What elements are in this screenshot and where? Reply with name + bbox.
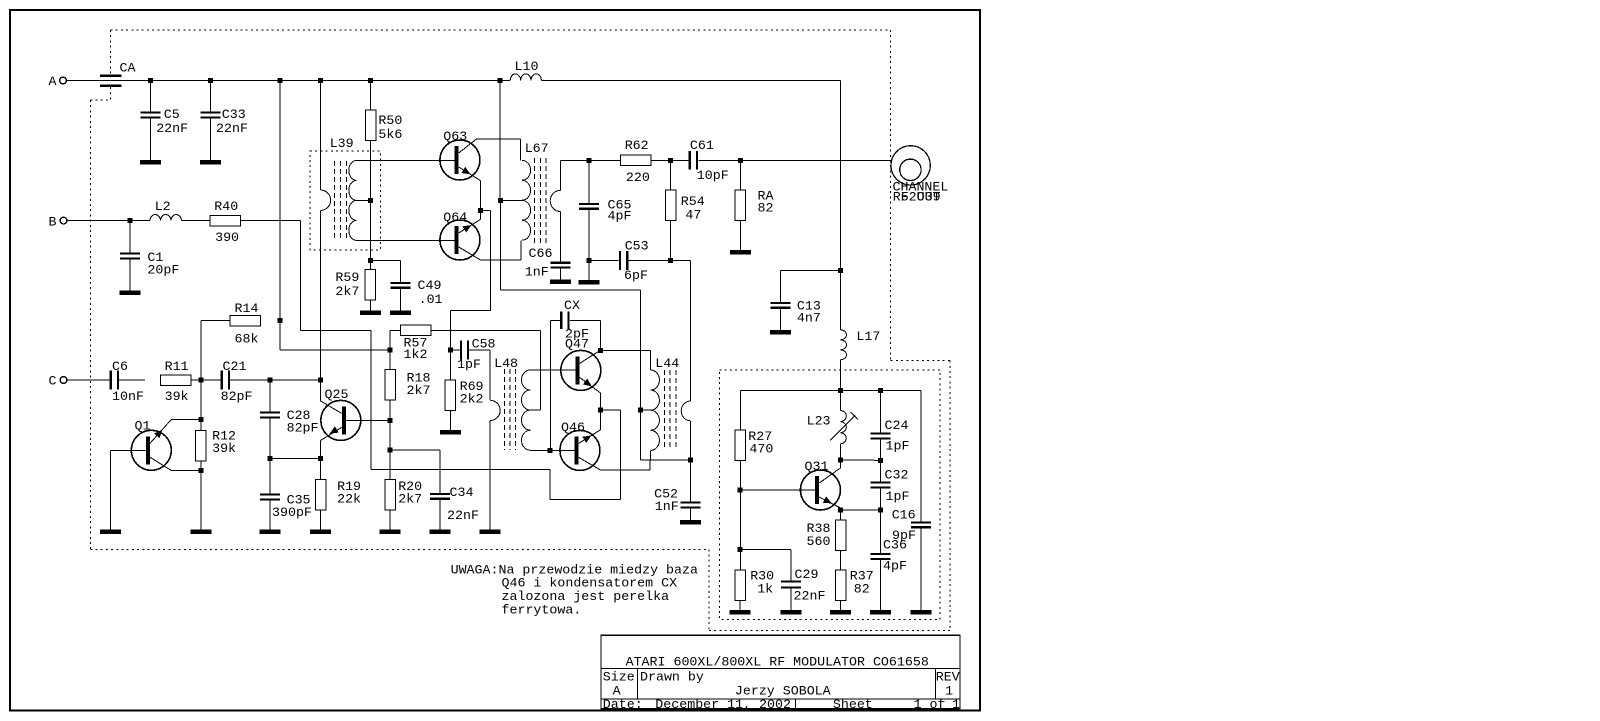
svg-text:L48: L48 bbox=[494, 356, 518, 371]
node R14 right bbox=[278, 318, 283, 323]
node osc rail L23 bbox=[838, 388, 843, 393]
wire B to C1 node bbox=[67, 220, 150, 222]
capacitor C58 bbox=[457, 337, 496, 373]
ground R12 bbox=[190, 529, 211, 534]
svg-text:20pF: 20pF bbox=[147, 263, 179, 278]
transformer L44 core bbox=[655, 356, 679, 450]
svg-text:REV: REV bbox=[936, 670, 960, 685]
capacitor C36 bbox=[871, 510, 907, 610]
svg-text:L39: L39 bbox=[330, 136, 354, 151]
node L39 tap bbox=[368, 198, 373, 203]
capacitor C34 bbox=[430, 485, 479, 534]
svg-text:10nF: 10nF bbox=[112, 389, 144, 404]
capacitor C6 bbox=[110, 359, 144, 404]
wire Q31 collector to L23 node bbox=[819, 460, 840, 483]
svg-text:4n7: 4n7 bbox=[797, 311, 821, 326]
resistor R30 bbox=[735, 569, 774, 610]
wire L67 tap down to L44 feed bbox=[501, 200, 641, 460]
label CHANNEL / RF OUT overlap bbox=[893, 180, 949, 205]
resistor R27 bbox=[735, 429, 773, 570]
wire Q63 collector to L67 top bbox=[459, 139, 521, 160]
wire R18 to Q25 base node to R20 bbox=[389, 400, 391, 480]
wire L2 to R40 bbox=[182, 220, 211, 222]
L39 core bbox=[335, 161, 347, 241]
wire C58 left lead bbox=[450, 349, 461, 351]
svg-text:Q25: Q25 bbox=[325, 387, 349, 402]
capacitor C28 bbox=[260, 380, 319, 459]
svg-text:R59: R59 bbox=[335, 270, 359, 285]
svg-text:22nF: 22nF bbox=[156, 121, 188, 136]
svg-text:Q63: Q63 bbox=[443, 129, 467, 144]
transistor Q64 bbox=[440, 210, 480, 260]
wire Q31 base bbox=[740, 489, 815, 491]
wire C6 to R11 bbox=[119, 379, 145, 381]
transformer L39 dotted box bbox=[310, 136, 380, 250]
svg-text:R50: R50 bbox=[378, 113, 402, 128]
node R20 top bbox=[388, 448, 393, 453]
wire L67 secondary top to R62 node bbox=[561, 159, 590, 161]
L44 primary winding (left) bbox=[651, 370, 660, 450]
transistor Q31 bbox=[800, 459, 840, 510]
ground L48 primary bbox=[479, 529, 500, 534]
svg-text:1 of: 1 of bbox=[914, 697, 946, 712]
wire Q25 collector to C-wire bbox=[320, 380, 341, 413]
resistor R12 bbox=[196, 429, 237, 462]
node L23 bottom bbox=[838, 458, 843, 463]
svg-text:R11: R11 bbox=[165, 359, 189, 374]
node R12 top bbox=[198, 417, 203, 422]
svg-text:1pF: 1pF bbox=[457, 357, 481, 372]
node C-R11 bbox=[198, 378, 203, 383]
capacitor C1 bbox=[120, 221, 180, 295]
oscillator top rail bbox=[740, 391, 921, 431]
resistor R18 bbox=[385, 350, 431, 400]
L48 primary winding (left) bbox=[490, 400, 500, 529]
wire R57 left lead bbox=[390, 330, 400, 350]
transistor Q1 bbox=[131, 419, 171, 471]
node A4 bbox=[318, 78, 323, 83]
capacitor C65 bbox=[579, 160, 631, 260]
node C21-C28 bbox=[267, 378, 272, 383]
svg-text:C49: C49 bbox=[418, 278, 442, 293]
wire R30 node to C29 bbox=[740, 549, 791, 580]
wire Q46 emitter up to node bbox=[579, 410, 601, 443]
resistor R40 bbox=[210, 199, 241, 245]
resistor R11 bbox=[160, 359, 191, 404]
svg-text:390pF: 390pF bbox=[272, 505, 312, 520]
svg-text:L44: L44 bbox=[655, 356, 679, 371]
resistor RA bbox=[735, 160, 773, 250]
svg-text:560: 560 bbox=[807, 534, 831, 549]
resistor R20 bbox=[385, 479, 422, 510]
node Q25 emitter bbox=[318, 456, 323, 461]
wire A-line bbox=[67, 80, 511, 82]
wire Q47 collector node to L44 primary bbox=[600, 350, 650, 370]
svg-text:22k: 22k bbox=[337, 492, 361, 507]
node C24-C32 bbox=[878, 458, 883, 463]
wire Q1 base to ground bbox=[110, 450, 146, 529]
node C28-C35 bbox=[267, 456, 272, 461]
node A3 bbox=[278, 78, 283, 83]
svg-text:L10: L10 bbox=[515, 59, 539, 74]
wire C53 leads bbox=[589, 260, 690, 262]
svg-text:L17: L17 bbox=[856, 329, 880, 344]
node A1 bbox=[148, 78, 153, 83]
wire L23 bottom to C24 node bbox=[840, 459, 880, 461]
capacitor CX bbox=[550, 298, 589, 342]
wire C53 node down to L44 secondary bbox=[690, 261, 692, 402]
svg-text:1pF: 1pF bbox=[886, 439, 910, 454]
wire C61 to RF out bbox=[698, 159, 890, 161]
ground C16 bbox=[910, 610, 931, 615]
wire L44 bottom rail bbox=[640, 450, 690, 460]
resistor R62 bbox=[621, 138, 652, 185]
node R62 right bbox=[668, 158, 673, 163]
capacitor C49 bbox=[390, 278, 443, 315]
svg-text:1k2: 1k2 bbox=[404, 347, 428, 362]
svg-text:C53: C53 bbox=[625, 239, 649, 254]
ground R37 bbox=[830, 610, 851, 615]
svg-text:39k: 39k bbox=[165, 389, 189, 404]
node R62 left bbox=[587, 158, 592, 163]
svg-text:C66: C66 bbox=[529, 246, 553, 261]
wire Q25 base to R18 node bbox=[344, 419, 390, 421]
svg-text:Date:: Date: bbox=[603, 697, 643, 712]
svg-text:B: B bbox=[49, 215, 57, 230]
svg-text:1k: 1k bbox=[757, 582, 773, 597]
transistor Q47 bbox=[561, 337, 601, 391]
node C13 bbox=[838, 268, 843, 273]
wire Q64 collector to L67 bottom bbox=[459, 240, 521, 260]
wire R62 leads bbox=[589, 159, 691, 161]
wire R59 node to C49 bbox=[370, 261, 400, 282]
capacitor C61 bbox=[689, 138, 729, 183]
wire L39 bottom to Q64 base bbox=[357, 239, 455, 241]
wire L39 top to Q63 base bbox=[357, 159, 455, 161]
svg-text:CX: CX bbox=[564, 298, 580, 313]
svg-text:22nF: 22nF bbox=[216, 121, 248, 136]
svg-text:1: 1 bbox=[952, 697, 960, 712]
wire R11 to C21 bbox=[191, 379, 221, 381]
node C32 bottom bbox=[878, 508, 883, 513]
L39 secondary winding (right) bbox=[349, 160, 357, 240]
node Q25 base bbox=[388, 418, 393, 423]
svg-text:39k: 39k bbox=[212, 441, 236, 456]
title block frame bbox=[601, 635, 960, 709]
svg-text:Q31: Q31 bbox=[805, 459, 829, 474]
oscillator dotted box bbox=[720, 370, 941, 620]
wire CX right lead to Q47 collector node bbox=[570, 320, 601, 350]
capacitor C29 bbox=[781, 567, 826, 614]
node Q47-Q46 bbox=[598, 408, 603, 413]
wire R38 to R37 bbox=[840, 551, 842, 571]
svg-text:C21: C21 bbox=[223, 359, 247, 374]
terminal B bbox=[49, 215, 67, 230]
svg-text:C: C bbox=[49, 374, 57, 389]
node R12 bottom bbox=[198, 468, 203, 473]
wire R14 left lead down to C-wire node bbox=[201, 321, 230, 380]
capacitor C13 bbox=[770, 270, 840, 334]
svg-text:Drawn by: Drawn by bbox=[640, 670, 704, 685]
svg-text:2k7: 2k7 bbox=[398, 492, 422, 507]
svg-text:C29: C29 bbox=[795, 567, 819, 582]
svg-text:68k: 68k bbox=[235, 332, 259, 347]
svg-text:C58: C58 bbox=[472, 337, 496, 352]
wire R40 to corner, down to mixer emitter rail bbox=[241, 221, 551, 470]
wire CX feed down to Q46 base node bbox=[549, 320, 551, 450]
wire R20 node to C34 bbox=[390, 450, 440, 493]
svg-text:Q1: Q1 bbox=[135, 419, 151, 434]
wire common emitters to C58 node bbox=[450, 211, 490, 351]
shield dashed box (RF cage outline) bbox=[90, 30, 950, 631]
svg-text:C32: C32 bbox=[885, 468, 909, 483]
svg-text:ATARI 600XL/800XL RF MODULATOR: ATARI 600XL/800XL RF MODULATOR CO61658 bbox=[626, 654, 929, 669]
capacitor C35 bbox=[259, 459, 312, 534]
svg-text:82pF: 82pF bbox=[287, 421, 319, 436]
wire Q46 collector to L44 bottom bbox=[579, 457, 650, 470]
wire R57 right lead to L48 tap bbox=[431, 330, 541, 410]
svg-text:52U39: 52U39 bbox=[901, 190, 941, 205]
svg-text:CA: CA bbox=[120, 61, 136, 76]
wire C to C6 bbox=[67, 379, 110, 381]
ground R30 bbox=[730, 610, 751, 615]
svg-text:6pF: 6pF bbox=[624, 268, 648, 283]
wire Q31 emitter to R38 node bbox=[819, 496, 840, 520]
node C53-R54 bbox=[668, 258, 673, 263]
node R59 top bbox=[368, 258, 373, 263]
transistor Q25 bbox=[321, 387, 361, 440]
L39 primary winding (left) bbox=[320, 81, 330, 381]
wire L39 centre tap bbox=[357, 199, 371, 201]
node B1 bbox=[128, 218, 133, 223]
wire C28 node to Q25 emitter node bbox=[270, 458, 321, 460]
node A2 bbox=[208, 78, 213, 83]
ground C36 bbox=[870, 610, 891, 615]
capacitor C53 bbox=[619, 239, 649, 284]
svg-text:9pF: 9pF bbox=[892, 528, 916, 543]
svg-text:L23: L23 bbox=[807, 414, 831, 429]
L67 secondary winding (right) bbox=[550, 160, 560, 261]
page border bbox=[10, 10, 980, 711]
L44 secondary winding (right) bbox=[681, 401, 690, 460]
svg-text:C16: C16 bbox=[892, 508, 916, 523]
wire R20 to ground bbox=[380, 510, 401, 534]
wire Q1 emitter to R12 top node bbox=[150, 420, 201, 444]
capacitor C66 bbox=[525, 246, 571, 284]
node osc rail C24 bbox=[878, 388, 883, 393]
capacitor C5 bbox=[140, 81, 188, 165]
L48 secondary winding (right) bbox=[522, 370, 531, 450]
svg-text:1pF: 1pF bbox=[886, 489, 910, 504]
ground Q1 base bbox=[100, 529, 121, 534]
title text bbox=[626, 654, 929, 669]
svg-text:L67: L67 bbox=[525, 141, 549, 156]
terminal C bbox=[49, 374, 67, 389]
svg-text:470: 470 bbox=[749, 442, 773, 457]
svg-text:C6: C6 bbox=[112, 359, 128, 374]
ground RA bbox=[730, 250, 751, 255]
svg-text:ferrytowa.: ferrytowa. bbox=[502, 602, 582, 617]
node C-wire L39 bbox=[318, 378, 323, 383]
wire Q25 emitter down to R19 node bbox=[321, 426, 342, 479]
svg-text:C5: C5 bbox=[164, 107, 180, 122]
inductor L10 bbox=[510, 59, 541, 81]
wire A-line corner down to oscillator bbox=[839, 81, 841, 271]
svg-text:2k7: 2k7 bbox=[335, 284, 359, 299]
svg-text:10pF: 10pF bbox=[697, 168, 729, 183]
svg-text:L2: L2 bbox=[155, 199, 171, 214]
svg-text:C61: C61 bbox=[690, 138, 714, 153]
wire C21 to C28 node to Q25 collector drop bbox=[230, 379, 321, 381]
svg-text:82: 82 bbox=[854, 582, 870, 597]
svg-text:4pF: 4pF bbox=[608, 209, 632, 224]
node L44 tap bbox=[638, 408, 643, 413]
resistor R57 bbox=[400, 325, 431, 362]
resistor R37 bbox=[835, 569, 873, 610]
wire R11 node down through R12 to ground bbox=[200, 380, 202, 529]
capacitor CA bbox=[100, 61, 135, 87]
svg-text:22nF: 22nF bbox=[794, 589, 826, 604]
node R18 top bbox=[388, 348, 393, 353]
svg-text:220: 220 bbox=[626, 170, 650, 185]
resistor R38 bbox=[807, 520, 846, 551]
resistor R50 bbox=[365, 81, 402, 261]
resistor R54 bbox=[665, 160, 705, 260]
node C58-R69 bbox=[448, 348, 453, 353]
svg-text:December 11, 2002: December 11, 2002 bbox=[655, 697, 791, 712]
wire Q1 collector to R12 bottom node bbox=[150, 457, 201, 470]
wire L48 top to Q47 base bbox=[530, 369, 575, 371]
node C52 top bbox=[688, 458, 693, 463]
node Q63-Q64 emitters bbox=[478, 208, 483, 213]
svg-text:47: 47 bbox=[685, 208, 701, 223]
svg-text:R62: R62 bbox=[625, 138, 649, 153]
svg-text:C24: C24 bbox=[885, 418, 909, 433]
wire Q47 emitter down to node bbox=[580, 377, 601, 410]
wire Q63 emitter to common emitter node bbox=[459, 167, 481, 211]
svg-text:R40: R40 bbox=[214, 199, 238, 214]
resistor R14 bbox=[230, 301, 261, 347]
terminal A bbox=[49, 74, 67, 89]
svg-text:82pF: 82pF bbox=[221, 389, 253, 404]
node A6 bbox=[498, 78, 503, 83]
title row size/drawn/rev bbox=[603, 670, 960, 699]
node Q47 collector bbox=[598, 348, 603, 353]
svg-text:390: 390 bbox=[215, 230, 239, 245]
svg-text:A: A bbox=[49, 74, 57, 89]
svg-text:22nF: 22nF bbox=[447, 508, 479, 523]
capacitor C32 bbox=[871, 460, 910, 510]
wire A-line after L10 bbox=[541, 80, 840, 82]
svg-text:1nF: 1nF bbox=[525, 265, 549, 280]
svg-text:2k2: 2k2 bbox=[460, 392, 484, 407]
capacitor C21 bbox=[221, 359, 253, 404]
svg-text:.01: .01 bbox=[419, 292, 443, 307]
wire R14 node to R18 top node bbox=[280, 349, 390, 351]
wire C65 node to ground bbox=[579, 261, 600, 285]
svg-text:Q46: Q46 bbox=[561, 420, 585, 435]
node C65 bottom bbox=[587, 258, 592, 263]
node A5 bbox=[368, 78, 373, 83]
svg-text:2k7: 2k7 bbox=[407, 383, 431, 398]
L67 primary winding (left) bbox=[522, 160, 531, 240]
wire L48 bottom to Q46 base bbox=[530, 449, 574, 451]
transistor Q63 bbox=[440, 129, 480, 180]
wire Q47 collector diag bbox=[580, 350, 601, 363]
wire A-node down to L67 tap node bbox=[499, 81, 501, 201]
svg-text:R14: R14 bbox=[235, 301, 259, 316]
wire L67 tap to drive node bbox=[501, 199, 522, 201]
capacitor C16 bbox=[892, 391, 931, 610]
svg-text:1nF: 1nF bbox=[655, 499, 679, 514]
transformer L48 core bbox=[494, 356, 518, 450]
svg-text:Q47: Q47 bbox=[565, 337, 589, 352]
wire A down to R14 node bbox=[279, 81, 281, 351]
capacitor C33 bbox=[200, 81, 248, 165]
inductor L23 (variable) bbox=[807, 391, 858, 461]
resistor R69 bbox=[440, 350, 484, 434]
inductor L2 bbox=[150, 199, 182, 221]
wire R19 to ground bbox=[310, 510, 331, 534]
svg-text:C34: C34 bbox=[450, 485, 474, 500]
RF output connector bbox=[891, 146, 930, 185]
transistor Q46 bbox=[560, 420, 600, 470]
wire Q47/Q46 node loop to B rail bbox=[550, 410, 621, 500]
node C61-RA bbox=[738, 158, 743, 163]
resistor R59 bbox=[335, 261, 375, 311]
node R30 top bbox=[738, 547, 743, 552]
svg-text:82: 82 bbox=[758, 201, 774, 216]
title row date/sheet bbox=[603, 697, 960, 712]
note UWAGA bbox=[451, 562, 698, 617]
svg-text:C33: C33 bbox=[222, 107, 246, 122]
svg-text:4pF: 4pF bbox=[883, 559, 907, 574]
svg-text:Sheet: Sheet bbox=[833, 697, 873, 712]
wire emitter node to C32 node bbox=[841, 509, 880, 511]
inductor L17 bbox=[840, 270, 880, 390]
svg-text:5k6: 5k6 bbox=[378, 127, 402, 142]
wire C58 right lead to L48 primary bbox=[468, 350, 490, 400]
node Q31 base bbox=[737, 488, 742, 493]
capacitor C52 bbox=[654, 460, 701, 525]
svg-text:Q64: Q64 bbox=[443, 210, 467, 225]
node Q46 base bbox=[548, 448, 553, 453]
node L67 tap bbox=[498, 198, 503, 203]
wire Q64 emitter to common node bbox=[459, 211, 481, 234]
ground R59 bbox=[360, 311, 381, 316]
node Q31 emitter bbox=[838, 508, 843, 513]
resistor R19 bbox=[315, 479, 361, 510]
svg-text:Size: Size bbox=[603, 670, 635, 685]
capacitor C24 bbox=[871, 391, 910, 461]
transformer L67 core bbox=[525, 141, 549, 245]
wire L44 tap bbox=[640, 409, 650, 411]
